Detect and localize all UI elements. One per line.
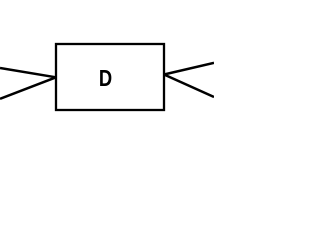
svg-text:D: D [99, 66, 112, 91]
wire lower-right [164, 75, 214, 98]
wire upper-right [164, 63, 214, 75]
entity box D [56, 44, 164, 110]
wire upper-left [0, 68, 56, 77]
wire lower-left [0, 77, 56, 99]
